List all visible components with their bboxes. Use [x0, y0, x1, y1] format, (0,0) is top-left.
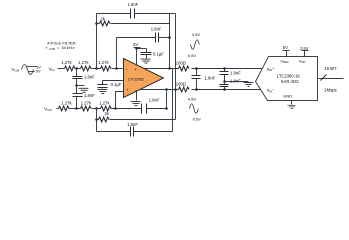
ADC VDD 2.5V supply — [300, 46, 309, 51]
svg-text:0.1µF: 0.1µF — [153, 51, 164, 56]
ground (C1 midpoint) — [77, 85, 85, 87]
svg-text:SAR ADC: SAR ADC — [281, 79, 299, 84]
wire: top input rail VIN to R1 — [58, 68, 65, 70]
svg-text:VREF: VREF — [280, 58, 289, 64]
svg-text:1.8nF: 1.8nF — [84, 93, 95, 98]
svg-text:1.27k: 1.27k — [61, 101, 72, 106]
svg-text:1.8nF: 1.8nF — [151, 26, 162, 31]
svg-text:+: + — [126, 88, 129, 93]
svg-text:5V: 5V — [133, 42, 138, 47]
node B' (dot) — [95, 107, 98, 110]
resistor R3b 1.27k (bottom rail) — [101, 106, 112, 111]
node A (dot) — [75, 67, 78, 70]
svg-text:1.8nF: 1.8nF — [230, 71, 241, 76]
svg-text:0.1µF: 0.1µF — [111, 82, 122, 87]
capacitor C5a 1.8nF (OUT+ to gnd) — [224, 69, 226, 72]
svg-text:100Ω: 100Ω — [176, 61, 186, 66]
svg-text:1.8nF: 1.8nF — [230, 78, 241, 83]
resistor R4a 2k (top feedback) — [97, 23, 100, 25]
svg-text:1.27k: 1.27k — [78, 60, 89, 65]
wire: R2b to node B' — [92, 108, 101, 110]
svg-text:VCM: VCM — [44, 106, 52, 112]
ground (ADC) — [287, 105, 295, 108]
svg-text:−: − — [125, 67, 128, 72]
op-amp V+ pin 5V with 0.1uF bypass — [133, 42, 138, 47]
resistor R4b 2k (bottom feedback) — [97, 119, 99, 121]
wire: R1a to node A — [76, 68, 81, 70]
svg-text:VCM: VCM — [12, 67, 20, 73]
node C' (dot) — [114, 107, 117, 110]
ADC U2 LTC2380-16 — [256, 57, 318, 101]
svg-text:2k: 2k — [105, 111, 110, 116]
wire: node B up to feedback loops — [96, 14, 98, 69]
svg-text:4.5V: 4.5V — [188, 96, 197, 101]
svg-text:5V: 5V — [283, 45, 288, 50]
bus slash — [321, 75, 327, 81]
ADC VREF 5V supply — [283, 45, 288, 50]
svg-text:0.5V: 0.5V — [188, 53, 197, 58]
svg-text:1.8nF: 1.8nF — [128, 2, 139, 7]
node B (dot) — [95, 67, 98, 70]
wire: branch up into amp IN+ — [116, 92, 124, 109]
svg-text:4.5V: 4.5V — [192, 32, 201, 37]
4-POLE FILTER annotation — [46, 40, 76, 51]
resistor R1a 1.27k (top rail) — [65, 66, 76, 71]
ADC GND pin to ground — [291, 101, 293, 105]
ground (V+ bypass) — [141, 59, 151, 63]
svg-text:1.27k: 1.27k — [81, 101, 92, 106]
wire: R3b to amp non-inverting branch — [111, 108, 142, 110]
resistor R2b 1.27k (bottom rail) — [81, 106, 92, 111]
wire: bottom rail VCM to R1b — [57, 108, 59, 110]
svg-text:0.5V: 0.5V — [193, 116, 202, 121]
ground (VOCM bypass) — [97, 90, 107, 94]
capacitor C3b 1.8nF (amp IN+ line to OUT-) — [141, 104, 143, 114]
node B' feedback tee (dot) — [95, 118, 98, 121]
ADC data output bus — [319, 78, 344, 80]
wire: OUT+ rail — [144, 68, 179, 70]
svg-text:f-3dB = 50kHz: f-3dB = 50kHz — [46, 45, 75, 51]
VCM source waveform annotation — [22, 65, 37, 75]
svg-text:16-BIT: 16-BIT — [324, 66, 337, 71]
svg-text:1.27k: 1.27k — [99, 101, 110, 106]
capacitor C5b 1.8nF (gnd to OUT-) — [224, 82, 226, 85]
wire: R3a to op-amp inverting input — [112, 68, 124, 70]
svg-text:1.8nF: 1.8nF — [205, 75, 216, 80]
bottom input rail: VCM label — [44, 106, 52, 112]
resistor R2a 1.27k (top rail) — [81, 66, 92, 71]
capacitor C1b 1.8nF (mid ground to node A') — [76, 86, 78, 94]
resistor R5b 100ohm (OUT-) — [179, 87, 190, 92]
wire: C2a right vertical down to OUT- rail — [175, 14, 177, 120]
node VIN label — [49, 66, 55, 72]
svg-text:VDD: VDD — [299, 58, 306, 64]
node C5 midpoint (dot) — [223, 80, 226, 83]
resistor R1b 1.27k (bottom rail) — [59, 106, 70, 111]
junction C2a/OUT- (dot) — [174, 88, 177, 91]
resistor R3a 1.27k (top rail) — [101, 66, 112, 71]
capacitor C1a 1.8nF (node A to mid ground) — [76, 69, 78, 77]
ground (op-amp V-) — [131, 102, 141, 106]
capacitor C3a 1.8nF (integrator, amp IN- to OUT+) — [116, 38, 118, 69]
node A' (dot) — [75, 107, 78, 110]
junction C3a/OUT+ vertical (dot) — [168, 36, 171, 39]
svg-text:2Msps: 2Msps — [324, 87, 336, 92]
svg-text:1.27k: 1.27k — [61, 60, 72, 65]
node mid of C1a/C1b (dot) — [75, 84, 78, 87]
wire: R2a to node B — [91, 68, 101, 70]
capacitor C2b 1.8nF (bottom outer feedback) — [97, 131, 131, 133]
OUT+ swing annotation 4.5V/0.5V sine — [191, 40, 200, 50]
svg-text:VIN: VIN — [49, 66, 55, 72]
wire: R1b to node A' — [69, 108, 81, 110]
svg-text:100Ω: 100Ω — [176, 82, 186, 87]
svg-text:1.8nF: 1.8nF — [149, 97, 160, 102]
svg-text:+: + — [134, 67, 137, 72]
ground (C5 midpoint) — [225, 81, 249, 83]
op-amp U1 LTC6362 — [124, 59, 164, 98]
svg-text:1.8nF: 1.8nF — [84, 75, 95, 80]
capacitor 0.1uF (V+ bypass) — [137, 48, 147, 50]
svg-text:1.27k: 1.27k — [98, 60, 109, 65]
junction OUT+ rail (dot) — [168, 67, 171, 70]
svg-text:1.8nF: 1.8nF — [127, 122, 138, 127]
node B feedback tee (dot) — [95, 22, 98, 25]
junction dots OUT- verticals — [165, 88, 168, 91]
resistor R5a 100ohm (OUT+) — [179, 66, 190, 71]
svg-text:GND: GND — [283, 94, 292, 99]
capacitor C4 1.8nF (differential across outputs) — [196, 69, 198, 76]
wire: C2b vertical up to OUT+ — [172, 69, 174, 132]
capacitor 0.1uF (VOCM bypass) — [98, 84, 108, 86]
op-amp VOCM pin with 0.1uF bypass — [103, 80, 124, 82]
capacitor C2a 1.8nF (top feedback) — [97, 13, 131, 15]
svg-text:LTC6362: LTC6362 — [128, 76, 145, 81]
wire: C3b vertical to OUT- — [166, 90, 168, 109]
wire: OUT+ feedback vertical — [169, 14, 171, 69]
op-amp V- pin to ground — [136, 92, 138, 101]
OUT- swing annotation 4.5V/0.5V sine — [190, 104, 199, 114]
wire: node B' down to bottom feedback loops — [96, 109, 98, 132]
svg-text:-5V: -5V — [35, 70, 41, 74]
wire: OUT- rail — [141, 89, 179, 91]
node C (dot, amp IN-) — [115, 67, 118, 70]
